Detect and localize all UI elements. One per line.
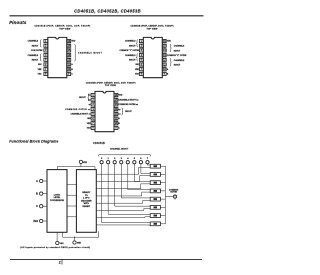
svg-text:CHANNELS: CHANNELS — [28, 54, 39, 57]
svg-text:A: A — [36, 179, 38, 183]
svg-text:IN/OUT: IN/OUT — [174, 65, 181, 67]
pin 14 box — [67, 49, 71, 52]
svg-text:A: A — [118, 117, 120, 120]
svg-text:ax: ax — [118, 114, 121, 116]
svg-text:CHANNELS: CHANNELS — [125, 54, 136, 57]
svg-text:BINARY: BINARY — [82, 191, 91, 194]
svg-text:CHANNELS IN/OUT bz: CHANNELS IN/OUT bz — [118, 98, 138, 101]
svg-text:IN/OUT: IN/OUT — [125, 111, 132, 113]
channel 4 wire — [127, 164, 129, 190]
svg-text:VEE: VEE — [87, 123, 92, 125]
decoder output wire 2 — [96, 180, 139, 182]
svg-text:Functional Block Diagrams: Functional Block Diagrams — [9, 140, 58, 144]
footer divider tick — [61, 259, 63, 264]
pin 11 box — [67, 63, 71, 66]
svg-text:IN/OUT: IN/OUT — [79, 97, 86, 99]
pin 14 box — [162, 49, 166, 52]
switch SW7 box — [150, 222, 160, 226]
DIP package body — [95, 91, 114, 131]
svg-text:INH: INH — [33, 219, 38, 223]
svg-text:VEE: VEE — [77, 243, 82, 245]
pin 6 box — [91, 117, 95, 120]
svg-text:COMMONS OUT/IN az: COMMONS OUT/IN az — [118, 104, 138, 106]
svg-text:B: B — [71, 69, 73, 71]
pin 9 box — [114, 126, 118, 129]
switch SW3 output wire — [160, 190, 165, 192]
svg-text:CHANNELS: CHANNELS — [174, 45, 185, 48]
CD4053B right brace pins 13-12 IN/OUT — [121, 108, 123, 116]
decoder output wire 4 — [96, 195, 141, 197]
svg-text:CD4052B (PDIP, CERDIP, SOIC, T: CD4052B (PDIP, CERDIP, SOIC, TSSOP) — [130, 25, 173, 28]
pin 5 box — [44, 58, 48, 61]
svg-text:CHANNELS IN/OUT cx: CHANNELS IN/OUT cx — [71, 113, 92, 116]
svg-text:IN/OUT: IN/OUT — [174, 50, 181, 52]
svg-text:COMMONS OUT/IN cz: COMMONS OUT/IN cz — [65, 109, 91, 111]
svg-text:2: 2 — [114, 158, 116, 160]
pin 4 box — [44, 54, 48, 57]
svg-text:TO: TO — [85, 195, 88, 197]
svg-text:CHANNELS: CHANNELS — [125, 40, 136, 43]
decoder output wire 5 — [96, 202, 143, 204]
svg-text:ay: ay — [118, 109, 121, 111]
svg-text:0: 0 — [101, 158, 103, 160]
svg-text:CHANNELS: CHANNELS — [174, 59, 185, 62]
VEE rail wire — [63, 231, 99, 237]
decoder output wire 1 — [96, 173, 138, 175]
svg-text:VDD: VDD — [83, 162, 88, 164]
svg-text:CONVERSION: CONVERSION — [50, 200, 64, 202]
svg-text:7: 7 — [147, 158, 149, 160]
pin 15 box — [162, 44, 166, 47]
switch SW2 box — [150, 181, 160, 185]
switch SW5 box — [150, 205, 160, 209]
pin 3 box — [91, 103, 95, 106]
svg-text:B: B — [118, 123, 120, 125]
switch SW6 output wire — [160, 215, 165, 217]
pin 3 box — [44, 49, 48, 52]
channel 3 wire — [120, 164, 122, 198]
svg-text:CHANNEL IN/OUT: CHANNEL IN/OUT — [110, 147, 129, 150]
svg-text:C: C — [36, 204, 38, 208]
pin 4 box — [91, 108, 95, 111]
svg-text:INH: INH — [87, 118, 91, 120]
svg-text:VEE: VEE — [135, 69, 140, 71]
channel 6 wire — [140, 164, 142, 174]
pin 13 box — [162, 54, 166, 57]
svg-text:VSS: VSS — [87, 128, 92, 130]
pin 5 box — [139, 58, 143, 61]
VDD terminal — [79, 160, 82, 163]
svg-text:6: 6 — [140, 158, 142, 160]
channel 2 wire — [114, 164, 116, 207]
pin 5 box — [91, 112, 95, 115]
switch SW1 box — [150, 173, 160, 177]
pin 12 box — [114, 112, 118, 115]
pin 8 box — [91, 126, 95, 129]
pin 10 box — [67, 68, 71, 71]
pin 7 box — [44, 68, 48, 71]
CD4051B right brace pins 15-12 CHANNELS IN/OUT — [74, 44, 76, 61]
pin 11 box — [162, 63, 166, 66]
svg-text:1 OF 8: 1 OF 8 — [83, 198, 90, 200]
pin 7 box — [91, 122, 95, 125]
switch SW5 output wire — [160, 206, 165, 208]
pin 2 box — [44, 44, 48, 47]
pin 3 box — [139, 49, 143, 52]
channel bracket — [99, 155, 151, 157]
svg-text:VDD: VDD — [118, 95, 123, 97]
switch SW1 output wire — [160, 173, 165, 175]
svg-text:COM OUT/IN: COM OUT/IN — [31, 50, 43, 52]
channel 7 wire — [146, 164, 148, 165]
CD4053B left brace pins 1-2 IN/OUT — [88, 94, 90, 102]
svg-text:C: C — [118, 128, 120, 130]
svg-text:VSS: VSS — [60, 243, 65, 245]
pin 8 box — [44, 72, 48, 75]
pin 8 box — [139, 72, 143, 75]
channel 1 wire — [107, 164, 109, 215]
svg-text:3: 3 — [121, 158, 123, 160]
svg-text:VEE: VEE — [38, 69, 43, 71]
logic level conversion block — [47, 170, 67, 233]
pin 12 box — [162, 58, 166, 61]
DIP package body — [48, 37, 67, 77]
pin 16 box — [162, 39, 166, 42]
switch SW3 box — [150, 189, 160, 193]
svg-text:CD4051B, CD4052B, CD4053B: CD4051B, CD4052B, CD4053B — [74, 9, 141, 14]
svg-text:VSS: VSS — [38, 74, 43, 76]
switch SW2 output wire — [160, 182, 165, 184]
switch SW4 output wire — [160, 198, 165, 200]
VEE junction — [74, 237, 75, 238]
svg-text:CD4051B: CD4051B — [93, 142, 105, 145]
pin 7 box — [139, 68, 143, 71]
VDD wire — [80, 163, 82, 166]
header rule — [10, 15, 204, 17]
decoder output wire 3 — [96, 188, 140, 190]
VSS terminal — [56, 232, 58, 241]
svg-text:IN/OUT: IN/OUT — [129, 60, 136, 62]
pin 15 box — [114, 98, 118, 101]
COMMON OUT/IN terminal — [173, 195, 176, 198]
svg-text:INHIBIT: INHIBIT — [83, 206, 91, 208]
pin 16 box — [114, 93, 118, 96]
svg-text:IN/OUT: IN/OUT — [32, 45, 39, 47]
binary 1-of-8 decoder block — [76, 170, 96, 233]
decoder output wire 6 — [96, 209, 144, 211]
svg-text:(All inputs protected by stand: (All inputs protected by standard CMOS p… — [20, 246, 90, 249]
pin 2 box — [139, 44, 143, 47]
pin 1 box — [139, 39, 143, 42]
svg-text:OUT/IN: OUT/IN — [170, 192, 177, 194]
channel 0 wire — [101, 164, 103, 223]
pin 12 box — [67, 58, 71, 61]
svg-text:CHANNELS IN/OUT: CHANNELS IN/OUT — [78, 51, 103, 54]
svg-text:COMMON "X" OUT/IN: COMMON "X" OUT/IN — [167, 55, 187, 57]
common bus wire — [164, 166, 166, 224]
svg-text:WITH: WITH — [84, 203, 90, 205]
switch SW6 box — [150, 214, 160, 218]
VEE terminal — [74, 237, 76, 241]
pin 13 box — [114, 108, 118, 111]
svg-text:VSS: VSS — [135, 74, 140, 76]
switch SW0 output wire — [160, 165, 165, 167]
pin 4 box — [139, 54, 143, 57]
svg-text:Pinouts: Pinouts — [9, 20, 27, 25]
svg-text:IN/OUT: IN/OUT — [32, 60, 39, 62]
footer rule — [10, 258, 202, 260]
pin 10 box — [114, 122, 118, 125]
pin 9 box — [162, 72, 166, 75]
pin 2 box — [91, 98, 95, 101]
pin 6 box — [44, 63, 48, 66]
svg-text:1: 1 — [108, 158, 110, 160]
svg-text:IN/OUT: IN/OUT — [129, 45, 136, 47]
channel 5 wire — [133, 164, 135, 182]
CD4052B right brace pins 12-11 CHANNELS IN/OUT — [170, 58, 172, 66]
svg-text:COMMON "Y" OUT/IN: COMMON "Y" OUT/IN — [119, 50, 139, 52]
pin 11 box — [114, 117, 118, 120]
svg-text:B: B — [167, 74, 169, 76]
svg-text:TOP VIEW: TOP VIEW — [146, 28, 157, 30]
pin 6 box — [139, 63, 143, 66]
pin 1 box — [44, 39, 48, 42]
svg-text:CHANNELS: CHANNELS — [28, 40, 39, 43]
switch SW7 output wire — [160, 223, 165, 225]
switch SW4 box — [150, 197, 160, 201]
svg-text:A: A — [167, 68, 169, 71]
pin 1 box — [91, 93, 95, 96]
pin 9 box — [67, 72, 71, 75]
svg-text:TOP VIEW: TOP VIEW — [105, 85, 116, 87]
svg-text:4: 4 — [127, 157, 129, 160]
svg-text:DECODER: DECODER — [81, 200, 92, 202]
svg-text:C: C — [71, 74, 73, 76]
DIP package body — [143, 37, 162, 77]
svg-text:INH: INH — [38, 64, 42, 66]
COMMON OUT/IN wire — [165, 196, 173, 198]
svg-text:5: 5 — [134, 158, 136, 160]
pin 14 box — [114, 103, 118, 106]
switch SW0 box — [150, 164, 160, 168]
CD4052B right brace pins 15-14 CHANNELS IN/OUT — [170, 44, 172, 52]
pin 16 box — [67, 39, 71, 42]
decoder output wire 7 — [96, 217, 145, 219]
svg-text:A: A — [71, 63, 73, 66]
wires between blocks — [67, 183, 76, 185]
pin 15 box — [67, 44, 71, 47]
svg-text:B: B — [36, 192, 38, 196]
svg-text:CD4051B (PDIP, CERDIP, SOIC, S: CD4051B (PDIP, CERDIP, SOIC, SOP, TSSOP) — [34, 25, 90, 28]
svg-text:2: 2 — [59, 260, 61, 264]
svg-text:VDD: VDD — [71, 41, 76, 43]
svg-text:VDD: VDD — [167, 41, 172, 43]
decoder output wire 8 — [96, 224, 146, 226]
svg-text:TOP VIEW: TOP VIEW — [59, 28, 70, 30]
pin 13 box — [67, 54, 71, 57]
pin 10 box — [162, 68, 166, 71]
svg-text:INH: INH — [136, 64, 140, 66]
